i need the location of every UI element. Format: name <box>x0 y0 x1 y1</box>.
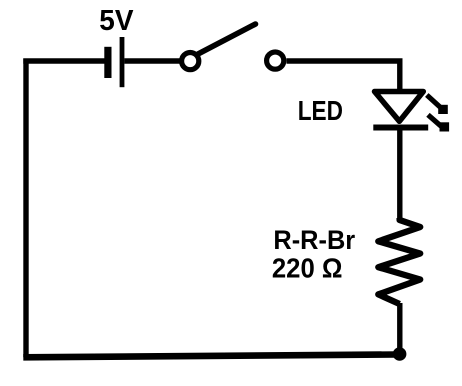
LED D1 triangle (anode, pointing down) <box>375 92 424 122</box>
svg-text:220 Ω: 220 Ω <box>272 253 343 284</box>
wire: resistor down to bottom junction <box>397 303 402 352</box>
battery B1 negative plate (short thick) <box>104 47 111 78</box>
LED light-emission arrow 1 <box>427 95 448 114</box>
resistor R1 zigzag body <box>378 218 420 304</box>
battery B1 positive plate (long thin) <box>120 37 125 87</box>
wire: top-left segment to battery <box>23 58 105 63</box>
svg-text:5V: 5V <box>99 5 134 37</box>
LED light-emission arrow 2 <box>428 115 449 132</box>
LED D1 cathode bar <box>373 125 428 131</box>
switch S1 throw contact (right circle) <box>267 52 284 69</box>
junction node dot <box>393 347 407 361</box>
svg-text:R-R-Br: R-R-Br <box>273 225 355 255</box>
wire: battery to switch pole <box>124 58 180 63</box>
switch S1 pole contact (left circle) <box>182 53 199 70</box>
switch S1 lever arm (open) <box>198 24 256 54</box>
svg-text:LED: LED <box>298 95 343 126</box>
wire: bottom horizontal <box>23 355 396 358</box>
wire: LED cathode down to resistor <box>397 128 402 220</box>
wire: left vertical side <box>23 59 28 358</box>
wire: switch to top-right corner down to LED anode <box>287 61 400 91</box>
